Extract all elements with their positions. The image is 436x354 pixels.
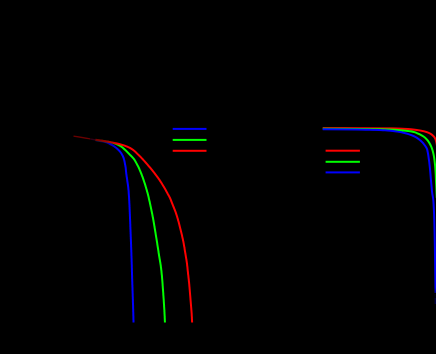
left plot red curve lead-in (faint) [74,136,100,140]
left legend line blue [173,128,207,130]
right legend line red [326,150,360,152]
left plot green curve [96,140,165,323]
right plot green curve [323,129,436,198]
right legend line green [326,161,360,163]
right plot red curve [323,128,436,146]
left plot red curve [96,140,193,323]
right plot blue curve [323,129,436,293]
right legend line blue [326,171,360,173]
left plot blue curve lead-in (faint) [91,139,100,141]
faint tail of right blue curve [434,294,436,304]
left plot blue curve [96,140,134,322]
dim overlay on left curve knee [90,134,120,152]
fade overlay on right blue curve tail [431,287,436,298]
left legend line red [173,150,207,152]
left legend line green [173,139,207,141]
